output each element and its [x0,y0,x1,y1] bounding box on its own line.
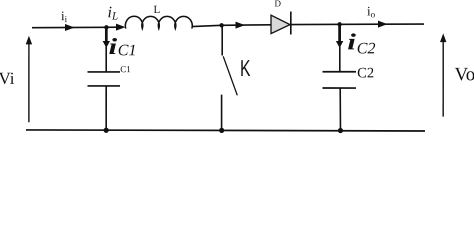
svg-text:Vo: Vo [454,64,474,85]
diode D [271,15,290,33]
node bottom-1 [104,128,109,133]
inductor L [125,16,192,28]
arrowhead mid current [236,22,246,29]
wire C1 to bottom rail [105,86,107,130]
switch K blade [223,56,237,95]
svg-text:i: i [109,34,118,59]
svg-text:L: L [154,4,161,16]
Vi arrow [28,41,30,122]
svg-text:C2: C2 [357,40,376,57]
arrowhead current i_o [378,21,388,28]
svg-text:i: i [347,29,356,54]
wire C2 to bottom rail [339,88,341,131]
switch bottom wire [221,95,223,130]
wire node B to diode [222,24,272,27]
capacitor C1 [87,71,120,73]
svg-text:C1: C1 [118,42,137,59]
svg-text:K: K [240,55,251,81]
svg-text:C1: C1 [120,64,131,74]
node bottom-2 [219,128,224,133]
current arrow i_C2 (thick) [338,25,341,42]
wire diode to output [291,23,424,26]
svg-text:Vi: Vi [0,69,15,88]
wire top-left segment [32,26,107,28]
capacitor C2 [322,71,355,73]
wire node A to C1 [105,27,107,71]
node A (input node) [104,25,108,29]
svg-text:C2: C2 [357,65,374,81]
node bottom-3 [338,128,343,133]
svg-text:D: D [275,0,282,8]
bottom rail wire [26,130,425,131]
wire node to inductor [106,26,118,28]
wire node C to C2 [339,24,341,71]
wire inductor to node B [192,25,222,26]
node C (output node) [337,22,341,26]
current arrow i_C1 (thick) [105,28,108,42]
arrowhead current i_i [65,24,75,31]
node B (switch node) [219,23,223,27]
arrowhead current i_L [116,24,126,31]
Vo arrow [442,39,444,117]
switch top wire [221,25,223,55]
